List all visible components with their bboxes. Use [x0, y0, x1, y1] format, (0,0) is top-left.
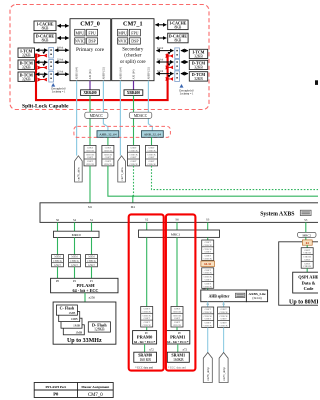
wire conv0 to gasket [107, 137, 109, 145]
MPU core1 [118, 29, 128, 36]
svg-text:C- Flash: C- Flash [60, 306, 75, 311]
svg-text:Up to 33MHz: Up to 33MHz [67, 338, 102, 344]
svg-text:8KB: 8KB [175, 26, 182, 30]
svg-text:QSPI AHB: QSPI AHB [298, 275, 318, 280]
svg-text:MRC1: MRC1 [171, 232, 181, 236]
svg-text:AHB_32_64: AHB_32_64 [144, 133, 162, 137]
svg-text:Secondary: Secondary [122, 48, 144, 53]
MRC2 [298, 232, 316, 237]
MRC0 [54, 231, 100, 237]
MPU U-CM70 [75, 29, 85, 36]
D-TCM left 2 [18, 72, 35, 81]
svg-text:or split) core: or split) core [120, 60, 146, 65]
gasket stack m2 [102, 145, 114, 166]
svg-text:M1: M1 [88, 205, 93, 209]
ahbp gasket stack 1 [218, 307, 230, 328]
width adapter 64-32 [201, 261, 215, 267]
svg-text:1MB: 1MB [73, 324, 81, 328]
PFLASH controller [51, 278, 118, 293]
svg-text:32-bit: 32-bit [57, 59, 63, 62]
svg-text:cm71_ahbs: cm71_ahbs [120, 166, 124, 180]
wire PFLASH to flash array [84, 293, 86, 302]
D-TCM left 1 [18, 60, 35, 69]
highlight box PRAM0 path [129, 214, 164, 370]
wire S4 stub [74, 222, 76, 231]
NVIC core1 [118, 38, 128, 44]
wire TCM1 arrows [157, 51, 188, 74]
wire AXI0 purple [89, 81, 91, 90]
svg-text:32-bit: 32-bit [157, 70, 163, 73]
D-CACHE left [34, 33, 56, 43]
SRAM0 [134, 352, 157, 362]
wire S2 stub [146, 222, 148, 230]
svg-text:x72: x72 [149, 347, 154, 351]
svg-text:FPU: FPU [131, 30, 138, 35]
gasket stack m1 [84, 145, 96, 166]
wire gasket to QSPI [306, 268, 308, 272]
pram0 gasket stack [141, 307, 153, 328]
svg-text:32KB: 32KB [194, 77, 203, 81]
wire AXI1 purple [133, 81, 135, 90]
TCM mux switches left [49, 47, 54, 82]
D-TCM right 2 [189, 72, 207, 81]
svg-text:MPU: MPU [118, 30, 127, 35]
TCM mux switches right [175, 48, 180, 82]
wire AHBP0 cyan [103, 81, 108, 131]
D-CACHE right [168, 33, 188, 43]
qspi gasket stack [301, 248, 313, 269]
DSP core1 [129, 38, 140, 44]
AXBS_Lite [246, 290, 267, 302]
wire S3 to gasket [207, 237, 209, 240]
wire splitter to ahbp gasket 0 [207, 302, 209, 307]
AHB_32_64 converter 0 [97, 131, 119, 138]
wire XBR1 green down [133, 95, 135, 145]
highlight box PRAM1 path [166, 214, 196, 370]
System AXBS crossbar [40, 203, 320, 223]
svg-text:XBR400: XBR400 [127, 91, 140, 95]
svg-text:(checker: (checker [124, 54, 142, 59]
lockstep cross-connect red bus [36, 54, 168, 101]
svg-text:8KB: 8KB [42, 39, 49, 43]
split-lock capable dashed region [10, 5, 209, 110]
I-CACHE left [34, 21, 56, 31]
svg-text:32-bit: 32-bit [57, 71, 63, 74]
svg-text:S5: S5 [304, 218, 308, 222]
svg-text:Code: Code [304, 286, 314, 291]
svg-text:32KB: 32KB [22, 77, 31, 81]
NVIC [75, 38, 85, 44]
PRAM0 controller [133, 331, 157, 344]
wire gasket m1 to M1 [89, 166, 91, 203]
XBR400 core1 [124, 90, 143, 96]
C-Flash stacked sheets [56, 305, 84, 335]
red crossover arrows right [166, 54, 173, 80]
I-CACHE right [168, 20, 188, 30]
svg-text:P0: P0 [53, 392, 59, 397]
wire gaskets to PFLASH [58, 267, 92, 279]
AHB splitter [201, 290, 247, 302]
wire cache1 arrows [156, 24, 167, 26]
svg-text:1MB: 1MB [71, 317, 79, 321]
width adapter 64 [302, 240, 312, 245]
svg-text:x256: x256 [89, 296, 96, 300]
svg-text:S2: S2 [145, 218, 149, 222]
wire gasket to PRAM0 [146, 327, 148, 331]
core divider [111, 19, 112, 81]
AHB_32_64 converter 1 [142, 131, 164, 138]
svg-text:1MB: 1MB [75, 330, 83, 334]
svg-text:* ECC data and: * ECC data and [168, 366, 186, 369]
wire adapter to qspi gasket [306, 245, 308, 248]
wire S1 stub [91, 222, 93, 231]
net label cm70_ahbp [203, 353, 212, 383]
svg-text:64: 64 [306, 241, 310, 245]
wire splitter to ahbp gasket 1 [223, 302, 225, 307]
wire AHBS1 cyan [119, 81, 121, 156]
wire S2 to pram0 gasket [146, 237, 148, 306]
svg-text:160KB: 160KB [173, 358, 184, 362]
XBR400 core0 [81, 90, 100, 96]
svg-text:x72: x72 [183, 347, 188, 351]
FPU [87, 29, 98, 36]
svg-text:XBR400: XBR400 [83, 91, 96, 95]
svg-text:NVIC: NVIC [75, 39, 85, 44]
I-TCM right [189, 49, 207, 58]
svg-text:CM7_0: CM7_0 [88, 393, 103, 398]
gasket stack m3 [128, 145, 140, 166]
svg-text:AXI (64): AXI (64) [133, 69, 136, 79]
wire cache0 arrows [58, 25, 69, 27]
wire to cm70_ahbp label [207, 328, 209, 353]
wire AHBS0 cyan [76, 81, 78, 156]
svg-text:64 - bit + ECC*: 64 - bit + ECC* [167, 340, 189, 344]
PRAM1 controller [166, 331, 190, 344]
wire XBR0 green down [89, 95, 91, 145]
svg-text:Data &: Data & [302, 280, 316, 285]
wire S6 to pram1 gasket [176, 237, 178, 306]
net label cm71_ahbs [118, 156, 126, 182]
svg-text:DSP: DSP [88, 39, 96, 44]
QSPI AHB block [293, 272, 320, 293]
svg-text:64-bit: 64-bit [157, 47, 163, 50]
svg-text:* ECC data and: * ECC data and [135, 366, 153, 369]
D-TCM right 1 [189, 60, 207, 69]
svg-text:1MB: 1MB [69, 311, 77, 315]
svg-text:Split-Lock Capable: Split-Lock Capable [22, 104, 69, 110]
svg-text:128KB: 128KB [94, 328, 105, 332]
wire S3 stub [207, 222, 209, 230]
S3 gasket stack upper [202, 240, 214, 261]
svg-text:MRC0: MRC0 [72, 233, 82, 237]
decoupled note right [180, 84, 184, 88]
svg-text:S3: S3 [206, 218, 210, 222]
svg-text:S6: S6 [175, 218, 179, 222]
S3 gasket stack lower [202, 268, 214, 289]
svg-text:System AXBS: System AXBS [260, 211, 294, 217]
svg-text:AHB_32_64: AHB_32_64 [99, 133, 117, 137]
svg-text:32KB: 32KB [22, 65, 31, 69]
svg-text:MRC2: MRC2 [302, 233, 311, 237]
svg-text:cm70_ahbp: cm70_ahbp [206, 367, 210, 381]
svg-text:M4: M4 [131, 205, 136, 209]
net label cm71_ahbp [219, 353, 228, 383]
wire PRAM0 to SRAM0 [144, 344, 146, 352]
MDACC core1 [129, 112, 152, 118]
svg-text:32KB: 32KB [22, 53, 31, 57]
svg-text:32-bit: 32-bit [157, 59, 163, 62]
QSPI region box [279, 242, 320, 305]
wire PRAM1 to SRAM1 [177, 344, 179, 352]
wire S6 stub [176, 222, 178, 230]
svg-text:32KB: 32KB [194, 55, 203, 59]
svg-text:Up to 80MHz: Up to 80MHz [289, 299, 318, 305]
svg-text:AHBS (64): AHBS (64) [76, 67, 79, 79]
MDACC core0 [85, 112, 108, 118]
AHB converter dashed region [74, 126, 170, 137]
svg-text:64-bit: 64-bit [57, 47, 63, 50]
wire S5 stub [305, 222, 307, 232]
wire gasket m2 to periph bus [108, 166, 318, 196]
SRAM1 [167, 352, 189, 362]
svg-text:Master Assignment: Master Assignment [81, 385, 110, 389]
svg-text:AHB splitter: AHB splitter [209, 294, 230, 298]
svg-text:cm71_ahbp: cm71_ahbp [222, 367, 226, 381]
svg-text:64 - bit + ECC*: 64 - bit + ECC* [134, 340, 156, 344]
wire gasket m3 dashed to M4 [133, 166, 135, 196]
svg-text:Lockstep = 1: Lockstep = 1 [52, 91, 66, 94]
PFLASH port table [34, 383, 113, 398]
svg-text:CM7_1: CM7_1 [123, 21, 143, 28]
wire TCM0 arrows [36, 50, 69, 74]
decoupled note left [51, 83, 55, 87]
svg-text:FPU: FPU [88, 30, 95, 35]
wire to AHB splitter [207, 288, 209, 290]
wire gasket to PRAM1 [176, 327, 178, 331]
svg-text:PFLASH Port: PFLASH Port [45, 385, 66, 389]
wire gasket m4 dashed to periph bus [152, 166, 319, 190]
svg-text:AHBS (64): AHBS (64) [119, 67, 122, 79]
wire MRC0 to pflash gaskets [58, 238, 92, 255]
svg-text:MPU: MPU [75, 30, 84, 35]
core CM7_1 [112, 19, 154, 81]
DSP [87, 38, 98, 44]
wire to width adapter [207, 260, 209, 263]
svg-text:64 - bit + ECC: 64 - bit + ECC [73, 288, 99, 293]
clipped element right edge [315, 80, 318, 85]
svg-text:8KB: 8KB [175, 39, 182, 43]
wire to cm71_ahbp label [223, 328, 225, 353]
gasket stack m4 [146, 145, 158, 166]
wire AHBP1 cyan [148, 81, 152, 131]
svg-text:32KB: 32KB [194, 66, 203, 70]
wire conv1 to gasket [151, 137, 153, 145]
svg-text:NVIC: NVIC [118, 39, 128, 44]
svg-text:160 KB: 160 KB [139, 358, 151, 362]
svg-text:MDACC: MDACC [90, 114, 104, 118]
I-TCM left [18, 48, 35, 57]
wire S0 stub [57, 222, 59, 231]
svg-text:DSP: DSP [131, 39, 139, 44]
svg-text:64-32: 64-32 [204, 262, 211, 266]
svg-text:CM7_0: CM7_0 [80, 21, 100, 28]
svg-text:D- Flash: D- Flash [92, 322, 107, 327]
MRC1 [139, 230, 220, 237]
pflash gasket stack P0 [52, 255, 64, 267]
ahbp gasket stack 0 [202, 307, 214, 328]
pflash gasket stack P1 [69, 255, 81, 267]
red crossover arrows left [38, 54, 47, 81]
svg-text:AHBP (32): AHBP (32) [102, 67, 105, 79]
svg-text:8KB: 8KB [42, 27, 49, 31]
pflash gasket stack P2 [86, 255, 98, 267]
svg-text:MDACC: MDACC [134, 114, 148, 118]
svg-text:Primary core: Primary core [76, 47, 105, 53]
core0 port labels [76, 67, 151, 79]
svg-text:AHBP (32): AHBP (32) [147, 67, 150, 79]
FPU core1 [129, 29, 140, 36]
flash array box [53, 302, 116, 344]
wire MRC2 to adapter [305, 237, 307, 240]
D-Flash [88, 322, 110, 332]
pram1 gasket stack [171, 307, 183, 328]
wire junction to M4 [132, 196, 134, 203]
svg-text:cm70_ahbs: cm70_ahbs [77, 166, 81, 180]
core CM7_0 [70, 19, 111, 81]
net label cm70_ahbs [75, 156, 83, 182]
svg-text:Lockstep = 1: Lockstep = 1 [180, 93, 194, 96]
svg-text:AXI (64): AXI (64) [89, 69, 92, 79]
svg-text:(32-bit): (32-bit) [252, 296, 261, 300]
